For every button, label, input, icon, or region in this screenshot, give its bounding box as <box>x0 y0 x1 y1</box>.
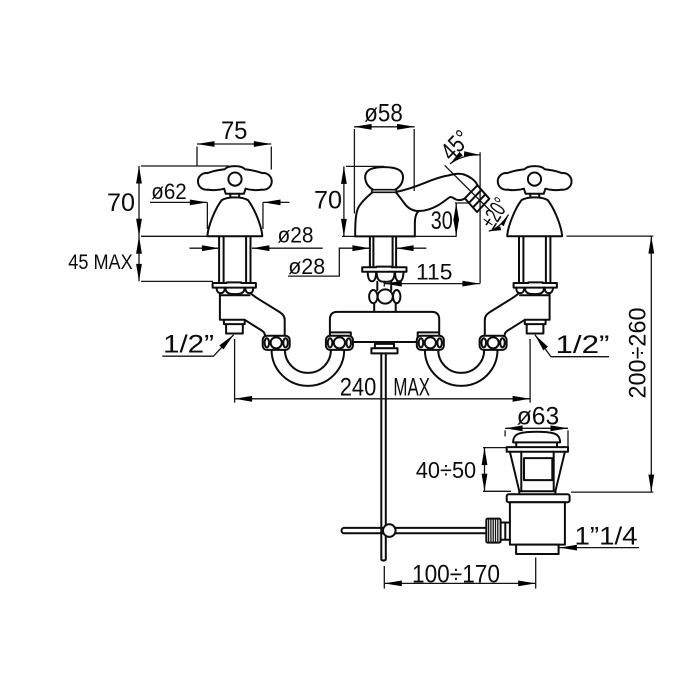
svg-text:200÷260: 200÷260 <box>624 308 651 399</box>
svg-text:ø28: ø28 <box>278 223 314 248</box>
svg-text:1/2”: 1/2” <box>163 331 214 359</box>
svg-text:45 MAX: 45 MAX <box>68 250 133 274</box>
svg-text:ø63: ø63 <box>517 403 560 431</box>
svg-text:240: 240 <box>340 373 377 401</box>
svg-text:75: 75 <box>221 117 248 145</box>
svg-text:115: 115 <box>416 259 452 284</box>
svg-text:100÷170: 100÷170 <box>412 560 500 588</box>
svg-text:40÷50: 40÷50 <box>416 457 476 483</box>
svg-text:45°: 45° <box>435 125 476 166</box>
svg-text:1/2”: 1/2” <box>556 331 610 359</box>
svg-text:MAX: MAX <box>393 373 430 401</box>
svg-text:1”1/4: 1”1/4 <box>575 523 638 551</box>
svg-text:ø58: ø58 <box>364 99 403 127</box>
svg-text:70: 70 <box>314 187 342 215</box>
svg-text:ø28: ø28 <box>288 254 325 279</box>
svg-text:30: 30 <box>431 207 453 235</box>
svg-text:70: 70 <box>107 189 135 217</box>
svg-text:ø62: ø62 <box>151 179 187 204</box>
